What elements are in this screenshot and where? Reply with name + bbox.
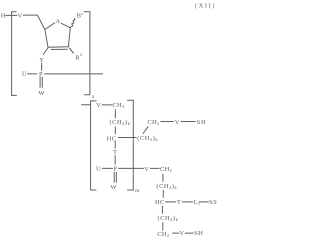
bond V-SH bottom [185,232,193,234]
bond Y-P [41,63,43,70]
bond diagonal (CH2)k-CH2 arm [143,127,148,134]
svg-text:U: U [96,166,101,173]
bond (CH2)k-HC tail [162,190,164,197]
bond CH2-V bottom [173,232,179,234]
svg-text:SH: SH [197,119,207,126]
svg-text:A: A [55,18,60,25]
bond L1-SS [199,201,208,203]
svg-text:V: V [144,166,149,173]
svg-text:T: T [113,149,117,156]
svg-text:T: T [177,199,181,206]
bracket 1 left [12,12,17,96]
bond HC-T tail [165,201,176,203]
svg-text:2: 2 [80,52,82,57]
svg-text:(CH2)k: (CH2)k [158,215,179,222]
bond HC-(CH2)k arm [118,137,136,139]
bond C4'-A [45,23,55,30]
bond P-V unit2 [119,167,144,169]
bond V-SH arm [181,121,195,123]
double bond P=W unit2 right [115,172,117,182]
svg-text:(XII): (XII) [195,2,216,9]
svg-text:(CH2)k: (CH2)k [137,135,158,142]
bond apex-C4' [37,15,45,29]
svg-text:HC: HC [155,199,165,206]
bond C2'-R2 [69,48,73,53]
double bond P=W unit2 left [113,172,115,182]
double bond C3'=C2' inner [51,48,67,50]
bond CH2-(CH2)k tail [162,174,164,181]
svg-text:V: V [17,13,22,20]
svg-text:H: H [1,13,6,20]
bond C1'-C2' [68,28,70,47]
bond U-P [27,73,36,75]
bond (CH2)k-CH2 tail [162,223,164,230]
svg-text:U: U [22,71,27,78]
bond CH2-(CH2)k [114,110,116,118]
svg-text:W: W [38,90,45,97]
bond A-C1' [61,23,70,28]
bracket 2 left [91,101,97,190]
bond P-backbone right [45,73,103,75]
double bond P=W right line [41,77,43,87]
wavy bond C1'-Bx [71,18,75,27]
bond C3'-Y [43,48,48,55]
bond T-L1 [182,201,193,203]
svg-text:V: V [175,119,180,126]
svg-text:V: V [179,230,184,237]
svg-text:(CH2)k: (CH2)k [110,119,131,126]
bond V-CH2 unit2 [102,104,112,106]
bracket 1 right with subscript a [84,12,90,95]
svg-text:L1: L1 [194,199,201,206]
svg-text:SS: SS [209,199,217,206]
bond V-CH2 apex [23,14,37,16]
svg-text:P: P [113,166,117,173]
bond HC-(CH2)k tail2 [161,206,163,213]
svg-text:W: W [110,184,117,191]
svg-text:m: m [135,189,139,194]
bond HC-T [114,141,116,148]
double bond C3'=C2' outer [48,46,68,49]
svg-text:(CH2)k: (CH2)k [156,183,177,190]
svg-text:V: V [96,102,101,109]
bond stub into unit2 [82,104,91,106]
bond (CH2)k-HC [114,127,116,134]
svg-text:SH: SH [194,230,203,237]
bond H-V through bracket [6,14,17,16]
bond T-P [114,155,116,164]
double bond P=W left line [39,77,41,87]
bond V-CH2 tail [150,167,159,169]
bond CH2-V arm [161,121,174,123]
bond U-P unit2 [102,167,112,169]
bracket 2 right with subscript m [127,100,133,190]
bond C4'-C3' [45,30,48,48]
